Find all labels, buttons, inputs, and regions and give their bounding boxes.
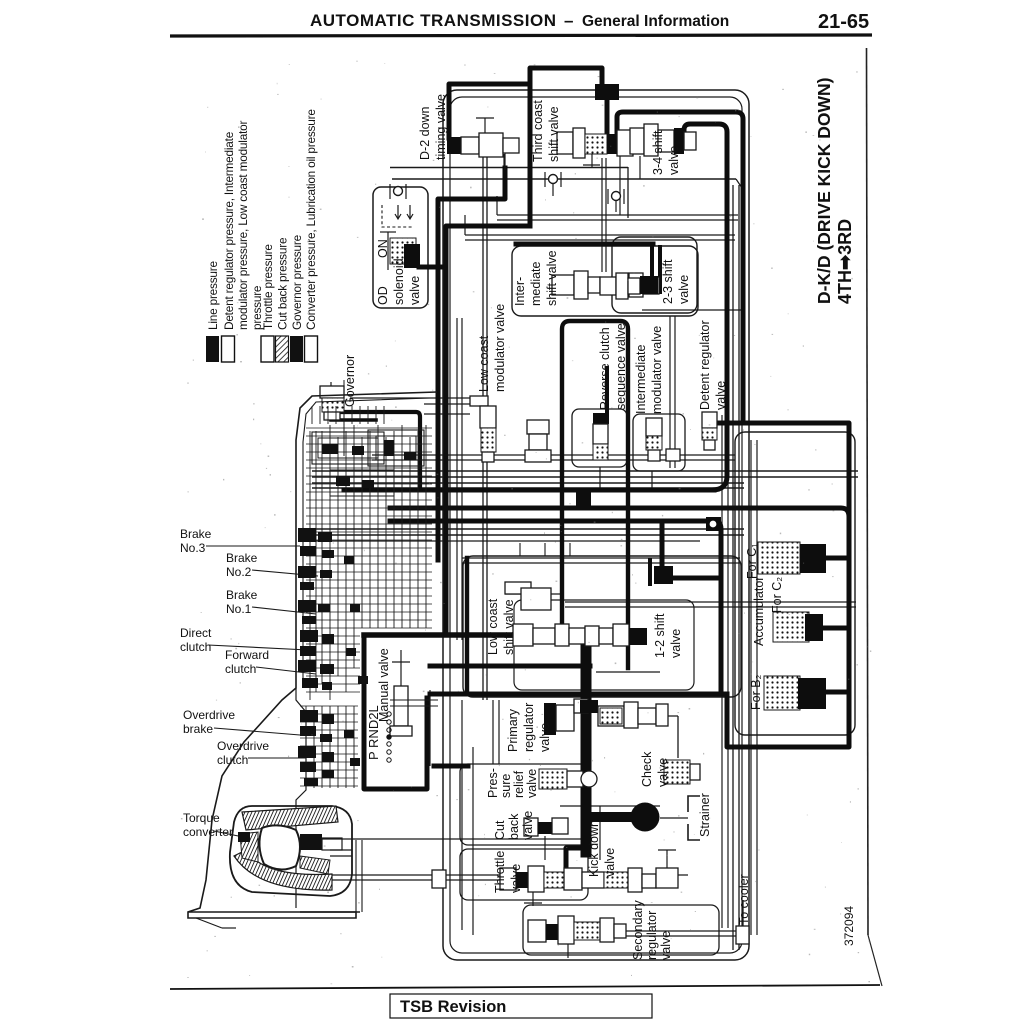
legend swatch: governor pressure (black) xyxy=(290,336,303,362)
wire h460 xyxy=(372,459,735,461)
accumulator for B2 xyxy=(764,676,800,710)
svg-text:relief: relief xyxy=(512,770,526,798)
secondary regulator box xyxy=(523,905,719,955)
svg-text:valve: valve xyxy=(521,811,535,840)
svg-text:Accumulator: Accumulator xyxy=(752,577,766,646)
svg-text:converter: converter xyxy=(183,825,233,839)
wire lower right loop xyxy=(716,423,849,747)
wire acc outer v728 xyxy=(727,415,729,928)
gear train internals xyxy=(309,431,311,700)
svg-text:valve: valve xyxy=(669,629,683,658)
svg-text:Check: Check xyxy=(640,751,654,787)
intermediate shift valve xyxy=(552,275,574,295)
OD solenoid valve box xyxy=(373,187,428,308)
detent regulator valve xyxy=(702,412,717,428)
svg-text:clutch: clutch xyxy=(225,662,256,676)
svg-text:OD: OD xyxy=(376,286,390,305)
wire v675 xyxy=(674,316,676,468)
wire to cooler drop xyxy=(742,900,744,926)
svg-text:Reverse clutch: Reverse clutch xyxy=(598,327,612,410)
svg-text:valve: valve xyxy=(714,381,728,410)
svg-text:modulator pressure, Low coast: modulator pressure, Low coast modulator xyxy=(236,120,250,330)
svg-text:valve: valve xyxy=(509,864,523,893)
svg-text:shift valve: shift valve xyxy=(502,599,516,655)
torque converter outer xyxy=(230,806,352,896)
svg-text:solenoid: solenoid xyxy=(392,258,406,305)
wire primary drop a xyxy=(492,700,494,764)
1-2 shift valve xyxy=(599,628,613,644)
svg-text:Direct: Direct xyxy=(180,626,212,640)
svg-text:TSB Revision: TSB Revision xyxy=(400,998,506,1016)
transmission housing outline xyxy=(188,392,437,918)
to cooler fitting xyxy=(736,926,749,944)
1-2 shift inner box xyxy=(514,600,694,690)
wire v462 xyxy=(461,700,463,930)
wire low coast box feed xyxy=(465,558,469,692)
svg-text:valve: valve xyxy=(659,931,673,960)
wire drop x600b xyxy=(599,467,601,490)
wire v487 xyxy=(486,150,488,700)
svg-text:modulator valve: modulator valve xyxy=(650,326,664,414)
svg-text:Brake: Brake xyxy=(226,588,258,602)
2-3 shift valve box xyxy=(612,237,697,313)
wire accumulator C1 stub xyxy=(824,556,849,561)
wire manual valve box xyxy=(364,635,427,789)
svg-text:No.1: No.1 xyxy=(226,602,252,616)
reverse clutch sequence valve box xyxy=(572,409,627,467)
svg-text:clutch: clutch xyxy=(180,640,211,654)
wire drain stub xyxy=(434,764,468,769)
wire corner top bus 2 xyxy=(736,179,742,188)
wire line-pressure inner trunk xyxy=(684,124,727,490)
pressure relief / cut back box xyxy=(460,764,588,845)
wire h558 xyxy=(462,557,740,559)
svg-text:back: back xyxy=(507,813,521,840)
wire h488 xyxy=(312,487,744,489)
svg-text:valve: valve xyxy=(538,723,552,752)
svg-text:sure: sure xyxy=(499,774,513,798)
bottom right corner diagonal xyxy=(868,935,882,986)
svg-text:AUTOMATIC TRANSMISSION: AUTOMATIC TRANSMISSION xyxy=(310,11,556,30)
wire h477 xyxy=(312,476,858,478)
D-2 down timing valve xyxy=(447,137,461,154)
housing base lines xyxy=(188,911,360,913)
wire line-pressure top loop xyxy=(530,68,602,226)
svg-text:Cut: Cut xyxy=(493,820,507,840)
wire line-pressure bus A xyxy=(344,488,714,493)
wire solenoid feed xyxy=(419,265,446,270)
check valve xyxy=(664,760,690,784)
governor assembly xyxy=(320,386,344,398)
wire manual valve top bus xyxy=(364,632,586,638)
svg-text:mediate: mediate xyxy=(529,261,543,306)
svg-text:Pres-: Pres- xyxy=(486,768,500,798)
wire bottom inner2 xyxy=(530,935,748,937)
wire 2-3 valve stub A xyxy=(650,247,654,292)
wire acc left v751 xyxy=(750,440,752,935)
wire v733 xyxy=(732,185,734,950)
wire accumulator C2 stub xyxy=(820,626,849,631)
svg-text:Overdrive: Overdrive xyxy=(217,739,269,753)
torque converter left black xyxy=(238,832,250,842)
right page border line xyxy=(867,48,869,935)
TSB Revision box xyxy=(390,994,652,1018)
kick down valve xyxy=(656,868,678,888)
svg-text:valve: valve xyxy=(525,769,539,798)
svg-text:ON: ON xyxy=(376,239,390,258)
wire drop x606 xyxy=(605,158,607,272)
wire tc line xyxy=(250,838,592,840)
wire h310 xyxy=(642,309,742,311)
wire corner y235 up xyxy=(464,215,466,235)
intermediate modulator valve box xyxy=(633,414,685,471)
wire ball feed xyxy=(586,812,634,822)
wire line-pressure bus C xyxy=(660,521,665,570)
accumulator for C2 xyxy=(773,612,809,642)
junction square bus A xyxy=(576,492,591,509)
wire drop x520 xyxy=(519,543,521,556)
wire h818 thin xyxy=(560,805,660,807)
torque converter hub black xyxy=(300,834,322,850)
wire lower trunk bus xyxy=(430,692,727,697)
wire h529 xyxy=(305,528,744,530)
svg-text:valve: valve xyxy=(656,758,670,787)
tc shaft lines xyxy=(330,849,352,851)
svg-text:Primary: Primary xyxy=(506,708,520,752)
valve body inner box xyxy=(450,97,742,953)
wire kick down elbow xyxy=(566,848,586,876)
svg-text:brake: brake xyxy=(183,722,213,736)
svg-text:Strainer: Strainer xyxy=(698,793,712,837)
svg-text:Intermediate: Intermediate xyxy=(634,344,648,414)
svg-text:valve: valve xyxy=(408,276,422,305)
svg-text:Kick down: Kick down xyxy=(587,820,601,877)
wire line-pressure second trunk xyxy=(446,226,530,633)
wire check valve drop xyxy=(677,716,679,758)
scan speckle xyxy=(181,61,871,985)
svg-text:Brake: Brake xyxy=(226,551,258,565)
svg-text:sequence valve: sequence valve xyxy=(614,323,628,410)
wire governor label leader xyxy=(343,380,345,456)
wire line-pressure right trunk xyxy=(617,112,743,420)
wire corner y167 drop xyxy=(627,167,629,218)
wire acc outer v722 xyxy=(721,415,723,928)
wire v483 xyxy=(482,150,484,700)
wire h471 xyxy=(312,470,858,472)
wire check valve top xyxy=(600,715,678,717)
housing inner line xyxy=(303,398,430,684)
wire 1-2 valve drop xyxy=(648,560,652,584)
svg-text:Throttle: Throttle xyxy=(493,851,507,893)
junction connector top xyxy=(595,84,619,100)
torque converter turbine blob xyxy=(259,825,300,869)
wire mid bus 2 xyxy=(465,234,735,236)
wire v473 xyxy=(472,747,474,935)
accumulator for C1 xyxy=(758,542,800,574)
wire line-pressure left elbow xyxy=(438,168,505,560)
svg-text:Low coast: Low coast xyxy=(477,335,491,392)
svg-text:No.2: No.2 xyxy=(226,565,252,579)
wire drop x545 xyxy=(544,543,546,556)
wire governor pressure top xyxy=(390,167,628,169)
svg-text:3-4 shift: 3-4 shift xyxy=(651,130,665,175)
wire connector to third coast valve xyxy=(605,100,610,138)
svg-text:For C₁: For C₁ xyxy=(745,544,759,579)
wire 1-2 feed elbow xyxy=(672,576,721,581)
intermediate modulator valve xyxy=(646,418,662,436)
svg-text:valve: valve xyxy=(603,848,617,877)
clutch pack black blocks xyxy=(298,528,316,542)
wire primary drop b xyxy=(498,700,500,764)
svg-text:Secondary: Secondary xyxy=(631,899,645,960)
planetary gear upper detail xyxy=(312,432,384,464)
svg-text:valve: valve xyxy=(667,146,681,175)
wire mid bus 1b xyxy=(497,219,738,221)
low coast / 1-2 shift valve box xyxy=(463,556,741,697)
wire mid bus 1 xyxy=(497,214,738,216)
svg-text:Throttle pressure: Throttle pressure xyxy=(261,244,275,330)
wire v739 xyxy=(738,185,740,950)
wire line-pressure D-2 feed xyxy=(449,84,528,138)
svg-text:Governor: Governor xyxy=(343,355,357,407)
junction block 1-2 feed xyxy=(654,566,673,584)
wire h483 xyxy=(312,482,744,484)
svg-text:General Information: General Information xyxy=(582,13,729,30)
wire drop x620 xyxy=(619,156,621,215)
wire line-pressure intermediate top xyxy=(516,242,653,247)
svg-text:Line pressure: Line pressure xyxy=(206,260,220,330)
secondary regulator valve xyxy=(528,920,546,942)
wire corner y215 up xyxy=(496,196,498,215)
valve body outer box xyxy=(443,90,749,960)
svg-text:shift valve: shift valve xyxy=(545,250,559,306)
wire h535 xyxy=(305,534,744,536)
wire overpass low-coast to 1-2 xyxy=(562,321,628,668)
wire v670 xyxy=(669,316,671,468)
svg-text:modulator valve: modulator valve xyxy=(493,304,507,392)
wire mid bus 2b xyxy=(465,239,735,241)
junction circle bus B xyxy=(706,517,721,531)
svg-text:Cut back pressure: Cut back pressure xyxy=(276,237,290,330)
svg-text:shift valve: shift valve xyxy=(547,106,561,162)
legend swatch: throttle pressure (white) xyxy=(261,336,274,362)
svg-text:For B₂: For B₂ xyxy=(749,674,763,710)
svg-text:No.3: No.3 xyxy=(180,541,206,555)
svg-text:Converter pressure, Lubricatio: Converter pressure, Lubrication oil pres… xyxy=(304,109,318,330)
wire line-pressure bus C2 xyxy=(390,521,721,692)
wire h563 xyxy=(462,562,740,564)
wire h612 low xyxy=(429,690,431,766)
svg-text:regulator: regulator xyxy=(645,911,659,960)
svg-text:Third coast: Third coast xyxy=(531,100,545,162)
low coast modulator valve upper xyxy=(470,396,488,406)
svg-text:Inter-: Inter- xyxy=(513,277,527,306)
small valve symbol top A xyxy=(549,175,558,184)
wire drop x652b xyxy=(651,471,653,490)
accumulator box xyxy=(735,432,855,735)
overdrive section internals xyxy=(305,706,307,788)
legend swatch: line pressure (black) xyxy=(206,336,219,362)
wire reverse clutch stub xyxy=(605,368,609,416)
wire governor line xyxy=(350,397,470,399)
wire h607 xyxy=(565,606,856,608)
svg-text:Low coast: Low coast xyxy=(486,598,500,655)
wire governor pressure thick lower xyxy=(331,418,376,422)
svg-text:D-2 down: D-2 down xyxy=(418,106,432,160)
manual valve spool xyxy=(394,686,408,726)
torque converter hatched band xyxy=(242,806,338,830)
wire drop x504 xyxy=(503,154,505,199)
wire drop x602 xyxy=(601,158,603,272)
legend swatch: converter pressure (white) xyxy=(305,336,318,362)
wire v462b xyxy=(461,318,463,640)
svg-text:–: – xyxy=(564,11,573,30)
wire 2-3 valve stub B xyxy=(658,247,662,292)
legend swatch: detent regulator pressure (white) xyxy=(222,336,235,362)
3-4 shift valve xyxy=(630,128,644,154)
svg-text:Forward: Forward xyxy=(225,648,269,662)
svg-text:Detent regulator pressure,: Detent regulator pressure, Intermediate xyxy=(222,131,236,330)
svg-text:To cooler: To cooler xyxy=(737,874,751,925)
svg-text:D-K/D (DRIVE KICK DOWN): D-K/D (DRIVE KICK DOWN) xyxy=(814,77,834,304)
wire h602 xyxy=(565,601,856,603)
wire kick line xyxy=(599,806,601,860)
wire governor pressure thick xyxy=(333,409,420,490)
2-3 shift valve xyxy=(600,277,616,295)
svg-text:valve: valve xyxy=(677,275,691,304)
wire h541 xyxy=(305,540,700,542)
svg-text:Detent regulator: Detent regulator xyxy=(698,320,712,410)
svg-text:P RND2L: P RND2L xyxy=(366,705,381,760)
throttle valve box xyxy=(460,849,588,900)
svg-text:1-2 shift: 1-2 shift xyxy=(653,613,667,658)
wire governor line c xyxy=(424,413,470,415)
wire line-pressure bus B xyxy=(390,508,849,517)
wire h594 xyxy=(505,593,560,595)
wire tc line2 xyxy=(308,874,688,876)
svg-text:regulator: regulator xyxy=(522,703,536,752)
wire acc left v757 xyxy=(756,440,758,935)
svg-text:Overdrive: Overdrive xyxy=(183,708,235,722)
junction ball xyxy=(631,803,660,832)
svg-text:timing valve: timing valve xyxy=(434,94,448,160)
footer rule xyxy=(170,985,880,989)
wire tc line2b xyxy=(312,879,600,881)
wire line-pressure bus D xyxy=(430,664,590,669)
small valve symbol solenoid xyxy=(394,187,403,196)
third coast shift valve xyxy=(557,132,573,154)
wire strainer link xyxy=(660,817,688,819)
svg-text:4TH➡3RD: 4TH➡3RD xyxy=(835,219,855,304)
wire v457 xyxy=(456,318,458,640)
bell housing curve xyxy=(296,688,306,908)
manual valve detent dots xyxy=(387,712,391,716)
svg-text:Brake: Brake xyxy=(180,527,212,541)
svg-text:372094: 372094 xyxy=(842,906,856,946)
wire top bus 2 xyxy=(392,178,736,180)
low coast shift valve xyxy=(505,582,531,594)
primary regulator valve xyxy=(544,703,556,735)
wire accumulator B2 stub xyxy=(822,690,849,695)
pressure relief valve xyxy=(539,769,567,789)
header rule xyxy=(170,35,872,36)
throttle valve xyxy=(432,870,446,888)
svg-text:For C₂: For C₂ xyxy=(770,577,784,613)
legend swatch: cut back pressure (hatched) xyxy=(276,336,289,362)
svg-text:2-3 shift: 2-3 shift xyxy=(661,259,675,304)
output shaft lines xyxy=(390,699,438,701)
wire h671 xyxy=(596,671,660,673)
wire drop x570 xyxy=(569,543,571,556)
svg-text:Governor pressure: Governor pressure xyxy=(290,234,304,330)
svg-text:Torque: Torque xyxy=(183,811,220,825)
strainer xyxy=(688,796,700,840)
upper gear section xyxy=(311,406,313,424)
wire governor line b xyxy=(424,403,470,405)
intermediate shift valve box xyxy=(512,246,698,316)
wire primary regulator drop xyxy=(581,635,592,852)
small valve symbol top B xyxy=(612,192,621,201)
wire drop x640 xyxy=(639,156,641,179)
low coast modulator valve lower xyxy=(527,420,549,434)
svg-text:21-65: 21-65 xyxy=(818,11,869,33)
reverse clutch sequence valve xyxy=(593,413,609,424)
cut back valve xyxy=(524,818,538,836)
wire h455 xyxy=(372,454,735,456)
wire bottom inner xyxy=(530,930,748,932)
OD solenoid valve xyxy=(390,238,416,264)
